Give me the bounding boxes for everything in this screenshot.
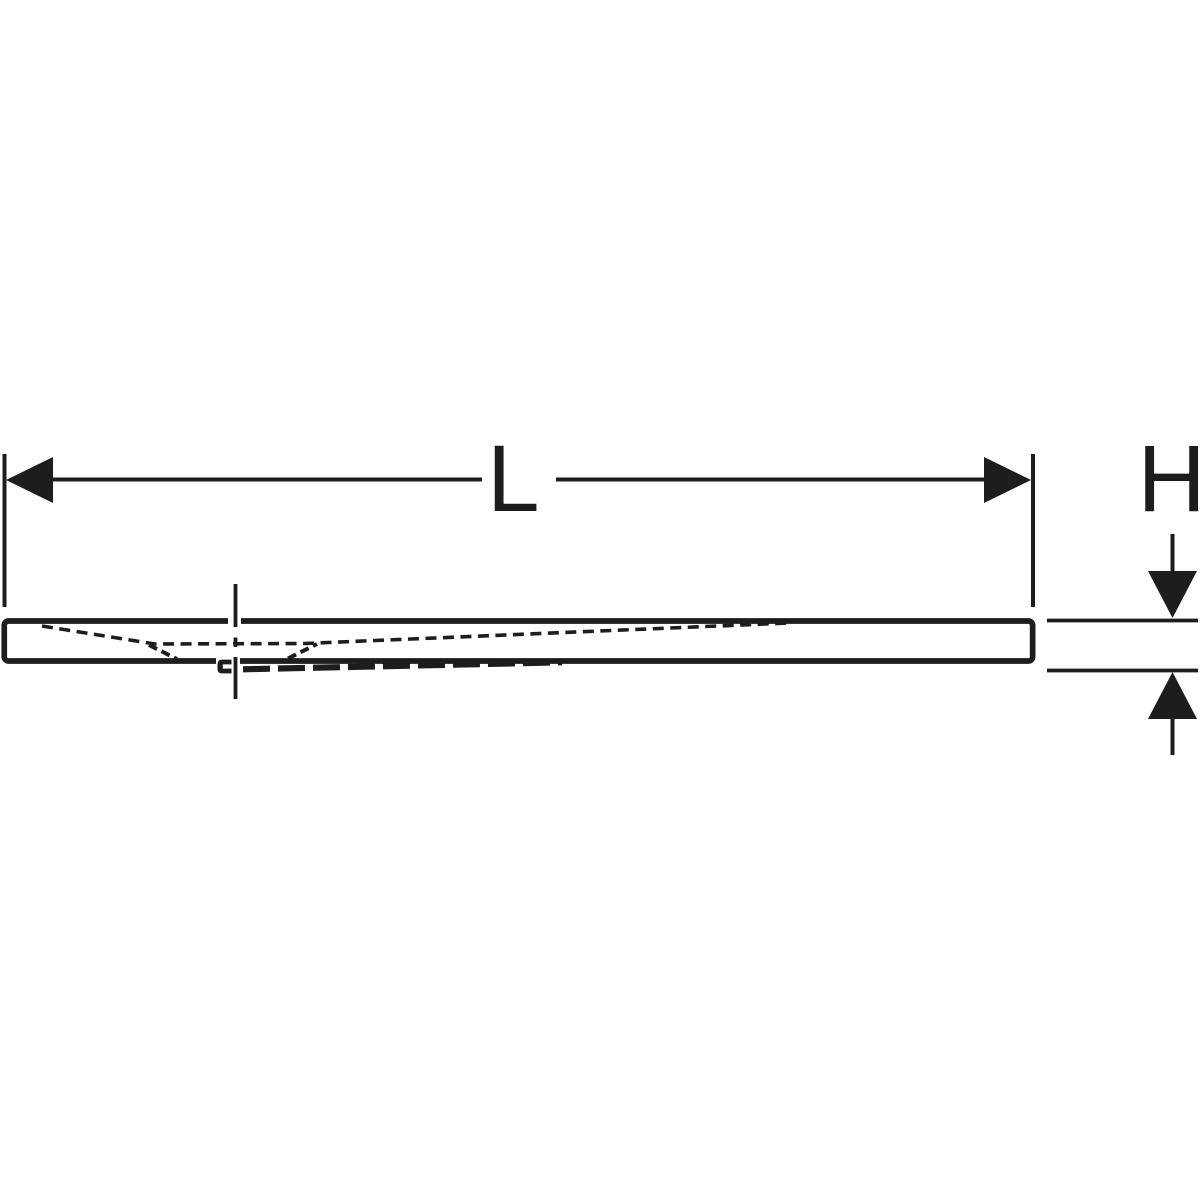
svg-text:H: H [1138,426,1200,532]
svg-text:L: L [487,426,540,532]
